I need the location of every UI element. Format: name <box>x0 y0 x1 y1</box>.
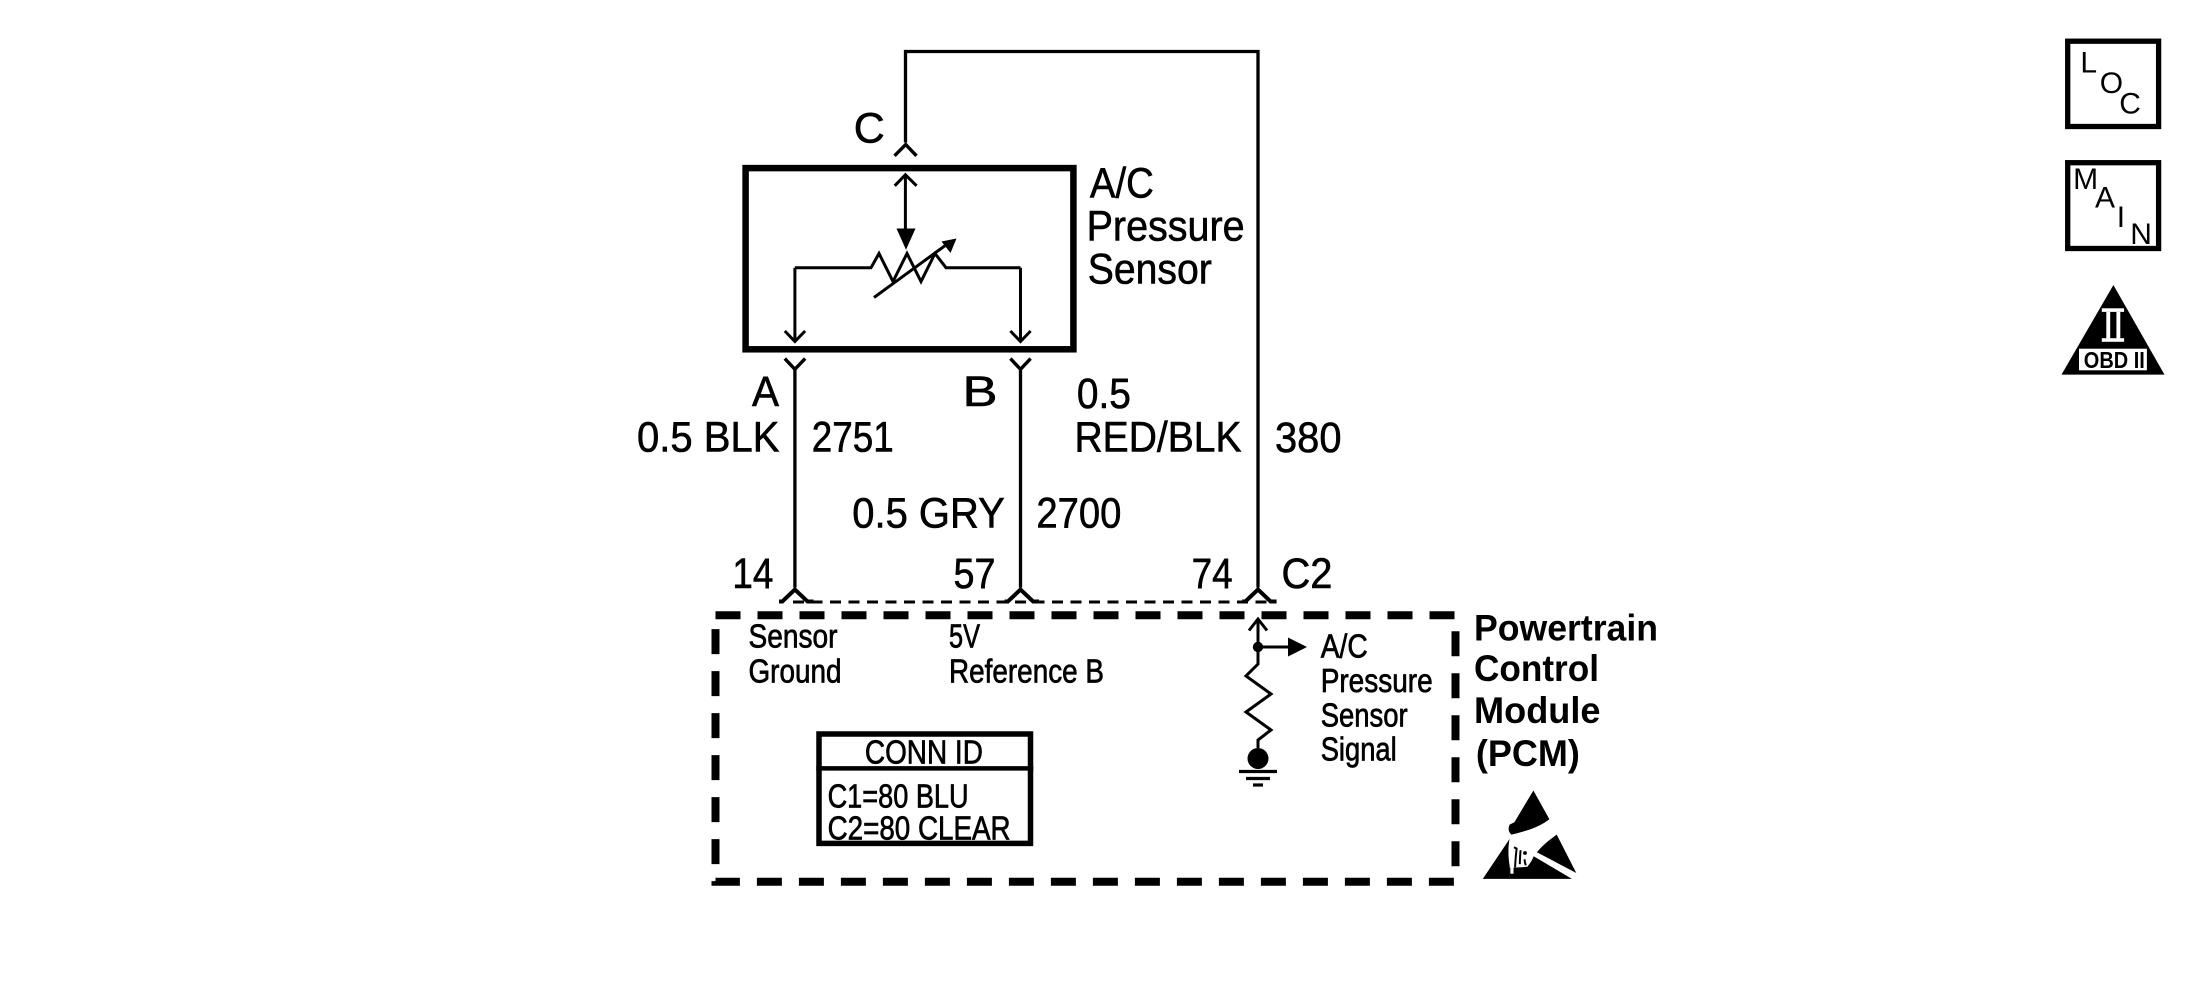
OBD II label plate <box>2079 349 2147 371</box>
connector half: PCM pin 57 <box>1005 590 1040 602</box>
svg-text:2751: 2751 <box>812 414 894 462</box>
connector C2 interface dashed line <box>793 601 1270 604</box>
svg-text:OBD II: OBD II <box>2084 347 2145 373</box>
label A/C Pressure Sensor Signal <box>1321 628 1433 768</box>
variable-resistor adjustment arrow <box>874 244 948 298</box>
label A/C Pressure Sensor <box>1087 160 1245 294</box>
svg-text:N: N <box>2130 218 2152 251</box>
svg-text:C2=80 CLEAR: C2=80 CLEAR <box>828 810 1011 847</box>
ESD electrostatic discharge warning symbol <box>1483 791 1577 879</box>
svg-text:(PCM): (PCM) <box>1476 733 1580 774</box>
PCM internal signal wire with up arrow (pin 74) <box>1249 619 1267 648</box>
PCM internal pull resistor <box>1246 652 1271 748</box>
svg-text:C2: C2 <box>1282 550 1333 598</box>
svg-text:Sensor: Sensor <box>1088 246 1212 294</box>
sensor internal input wire with arrows (from pin C) <box>895 175 917 229</box>
label 0.5 RED/BLK <box>1075 370 1242 462</box>
connector half: sensor pin B <box>1010 359 1030 370</box>
svg-text:A/C: A/C <box>1090 160 1154 208</box>
CONN ID table box <box>819 734 1031 843</box>
svg-text:14: 14 <box>732 550 773 598</box>
svg-text:0.5 BLK: 0.5 BLK <box>637 414 780 462</box>
CONN ID table divider <box>816 766 1033 771</box>
PCM dashed box <box>716 615 1456 881</box>
label Sensor Ground (pin 14 function) <box>749 618 842 690</box>
svg-text:C: C <box>854 105 885 153</box>
svg-text:0.5: 0.5 <box>1077 370 1131 418</box>
sensor internal wire to pin B with arrowhead <box>1010 268 1030 342</box>
svg-text:Powertrain: Powertrain <box>1474 608 1658 649</box>
OBD II roman numeral II <box>2102 308 2124 342</box>
svg-text:0.5 GRY: 0.5 GRY <box>852 490 1005 538</box>
svg-text:Pressure: Pressure <box>1321 662 1433 699</box>
svg-text:A/C: A/C <box>1321 628 1368 665</box>
svg-text:Signal: Signal <box>1321 731 1397 768</box>
svg-text:380: 380 <box>1275 414 1342 462</box>
connector half: PCM pin 14 <box>779 590 814 602</box>
connector half: PCM pin 74 <box>1242 590 1277 602</box>
MAIN icon box <box>2068 163 2159 249</box>
A/C pressure sensor box <box>746 168 1074 349</box>
svg-text:B: B <box>963 368 998 416</box>
wire: sensor pin C to PCM pin 74 (0.5 RED/BLK 380) <box>906 52 1259 588</box>
svg-text:Ground: Ground <box>749 652 842 689</box>
svg-text:Sensor: Sensor <box>749 618 838 655</box>
svg-text:Control: Control <box>1474 648 1599 689</box>
svg-text:57: 57 <box>954 550 996 598</box>
svg-text:C: C <box>2119 88 2141 121</box>
variable resistor inside sensor <box>795 254 1021 282</box>
svg-text:Module: Module <box>1474 690 1601 731</box>
OBD II icon triangle <box>2062 285 2165 375</box>
svg-text:RED/BLK: RED/BLK <box>1075 414 1242 462</box>
svg-text:Reference B: Reference B <box>949 652 1104 689</box>
MAIN icon letters <box>2073 163 2152 251</box>
svg-text:5V: 5V <box>949 618 980 655</box>
wire B: sensor pin B to PCM pin 57 <box>1019 369 1022 587</box>
LOC icon box <box>2068 41 2159 126</box>
branch arrow to A/C pressure sensor signal <box>1258 646 1289 649</box>
sensor internal wire to pin A with arrowhead <box>785 268 805 342</box>
svg-text:L: L <box>2080 47 2097 80</box>
svg-text:74: 74 <box>1192 550 1233 598</box>
svg-text:Pressure: Pressure <box>1087 203 1245 251</box>
svg-text:CONN ID: CONN ID <box>865 734 983 771</box>
connector half: sensor pin C <box>895 145 917 156</box>
wire A: sensor pin A to PCM pin 14 <box>793 369 796 587</box>
svg-text:I: I <box>2117 201 2125 234</box>
LOC icon letters <box>2080 47 2141 121</box>
ground symbol <box>1239 772 1277 786</box>
connector half: sensor pin A <box>785 359 805 370</box>
ground ball <box>1248 748 1269 769</box>
svg-text:A: A <box>2095 181 2115 214</box>
svg-text:2700: 2700 <box>1036 490 1121 538</box>
label 5V Reference B (pin 57 function) <box>949 618 1104 690</box>
svg-text:Sensor: Sensor <box>1321 696 1408 733</box>
svg-text:A: A <box>752 368 779 416</box>
label Powertrain Control Module (PCM) <box>1474 608 1658 775</box>
junction node dot <box>1253 642 1263 652</box>
